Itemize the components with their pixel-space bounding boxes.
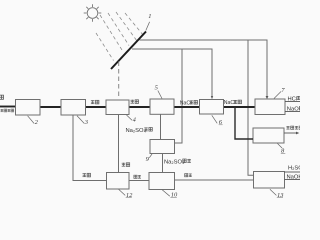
arrow into box 7 top (266, 96, 269, 99)
svg-text:Na₂SO₄: Na₂SO₄ (164, 159, 185, 165)
svg-text:NaCl: NaCl (224, 100, 236, 106)
box 12 (107, 173, 130, 190)
svg-text:H₂SO₄: H₂SO₄ (288, 165, 300, 171)
ref num 3 (77, 116, 89, 126)
ref num 4 (127, 115, 137, 124)
box 13 outputs (285, 171, 301, 173)
label: concentrate (box3-box4) (91, 100, 95, 104)
pipe 1 (y=40): collector to right (140, 40, 268, 97)
ref num 2 (28, 116, 39, 126)
dashed drop from collector to box 4 (118, 62, 120, 100)
label: mother liquor (box10-box13) (185, 174, 188, 177)
box 4 (106, 100, 129, 115)
svg-text:HCl: HCl (288, 97, 298, 103)
svg-text:3: 3 (84, 119, 89, 126)
ref num 7 (274, 87, 285, 99)
box 9 down to box 10 (162, 154, 164, 173)
label: NaOH (right of box 7, clipped) (287, 106, 303, 113)
box 8 (253, 128, 284, 143)
box 8 output with arrow (284, 132, 297, 134)
main process wires (thick) (0, 106, 255, 109)
pipe 2 (y=49): collector to box 6 (132, 49, 212, 97)
ref num 10 (162, 190, 178, 199)
box 3 (61, 100, 86, 116)
box 5 down to box 9 (160, 115, 162, 140)
ref num 13 (270, 189, 284, 199)
ref num 9 (146, 154, 152, 163)
svg-text:1: 1 (148, 13, 151, 20)
box 13 (254, 172, 285, 189)
svg-text:NaOH: NaOH (287, 175, 301, 181)
wire from NaCl line down to box 8 (235, 107, 253, 139)
label: fresh water (box4-box5) (131, 100, 135, 104)
ref num 12 (118, 189, 133, 199)
label: Na2SO4 crystal (below box 9) (164, 159, 191, 165)
label: concentrate (above box 12) (122, 163, 126, 167)
label 1 (146, 13, 152, 31)
svg-text:Na₂SO₄: Na₂SO₄ (126, 128, 147, 134)
label: fresh water (into box 12) (83, 173, 87, 177)
label: HCl solution (right of box 7, clipped) (288, 96, 301, 103)
label: NaCl solution (box6-box7) (224, 100, 242, 106)
box 10 to box 13 (175, 179, 254, 181)
pipe 1 branch down (V2) (248, 40, 254, 175)
sun (84, 4, 102, 22)
box 6 (200, 100, 224, 115)
sun rays (dashed) (96, 12, 144, 61)
label: mother liquor (box12-box10) (134, 175, 137, 178)
label: seawater (left edge, clipped) (0, 95, 14, 112)
label: Na2SO4 solution (below box 4) (126, 127, 153, 133)
label: NaCl solution (box5-box6) (180, 100, 198, 106)
box 5 (150, 99, 174, 114)
solar collector (thick diagonal) (111, 32, 146, 70)
svg-text:NaCl: NaCl (180, 100, 192, 106)
ref num 5 (155, 85, 162, 99)
svg-text:NaOH: NaOH (287, 107, 300, 113)
box 10 (149, 173, 175, 190)
ref num 6 (212, 115, 223, 126)
box 9 (150, 140, 175, 154)
box 7 outputs (285, 101, 300, 103)
box 7 (255, 99, 285, 115)
label: mixed solution (right of box 8, clipped) (286, 126, 302, 129)
box 2 (16, 100, 41, 116)
main row boxes (16, 99, 286, 190)
ref num 8 (278, 144, 286, 155)
box 3 down to box 12 (73, 115, 107, 181)
box 12 to box 10 (129, 180, 149, 182)
pipe 2 branch down to box 9 (175, 49, 182, 143)
box 4 down to box 12 (118, 115, 120, 173)
